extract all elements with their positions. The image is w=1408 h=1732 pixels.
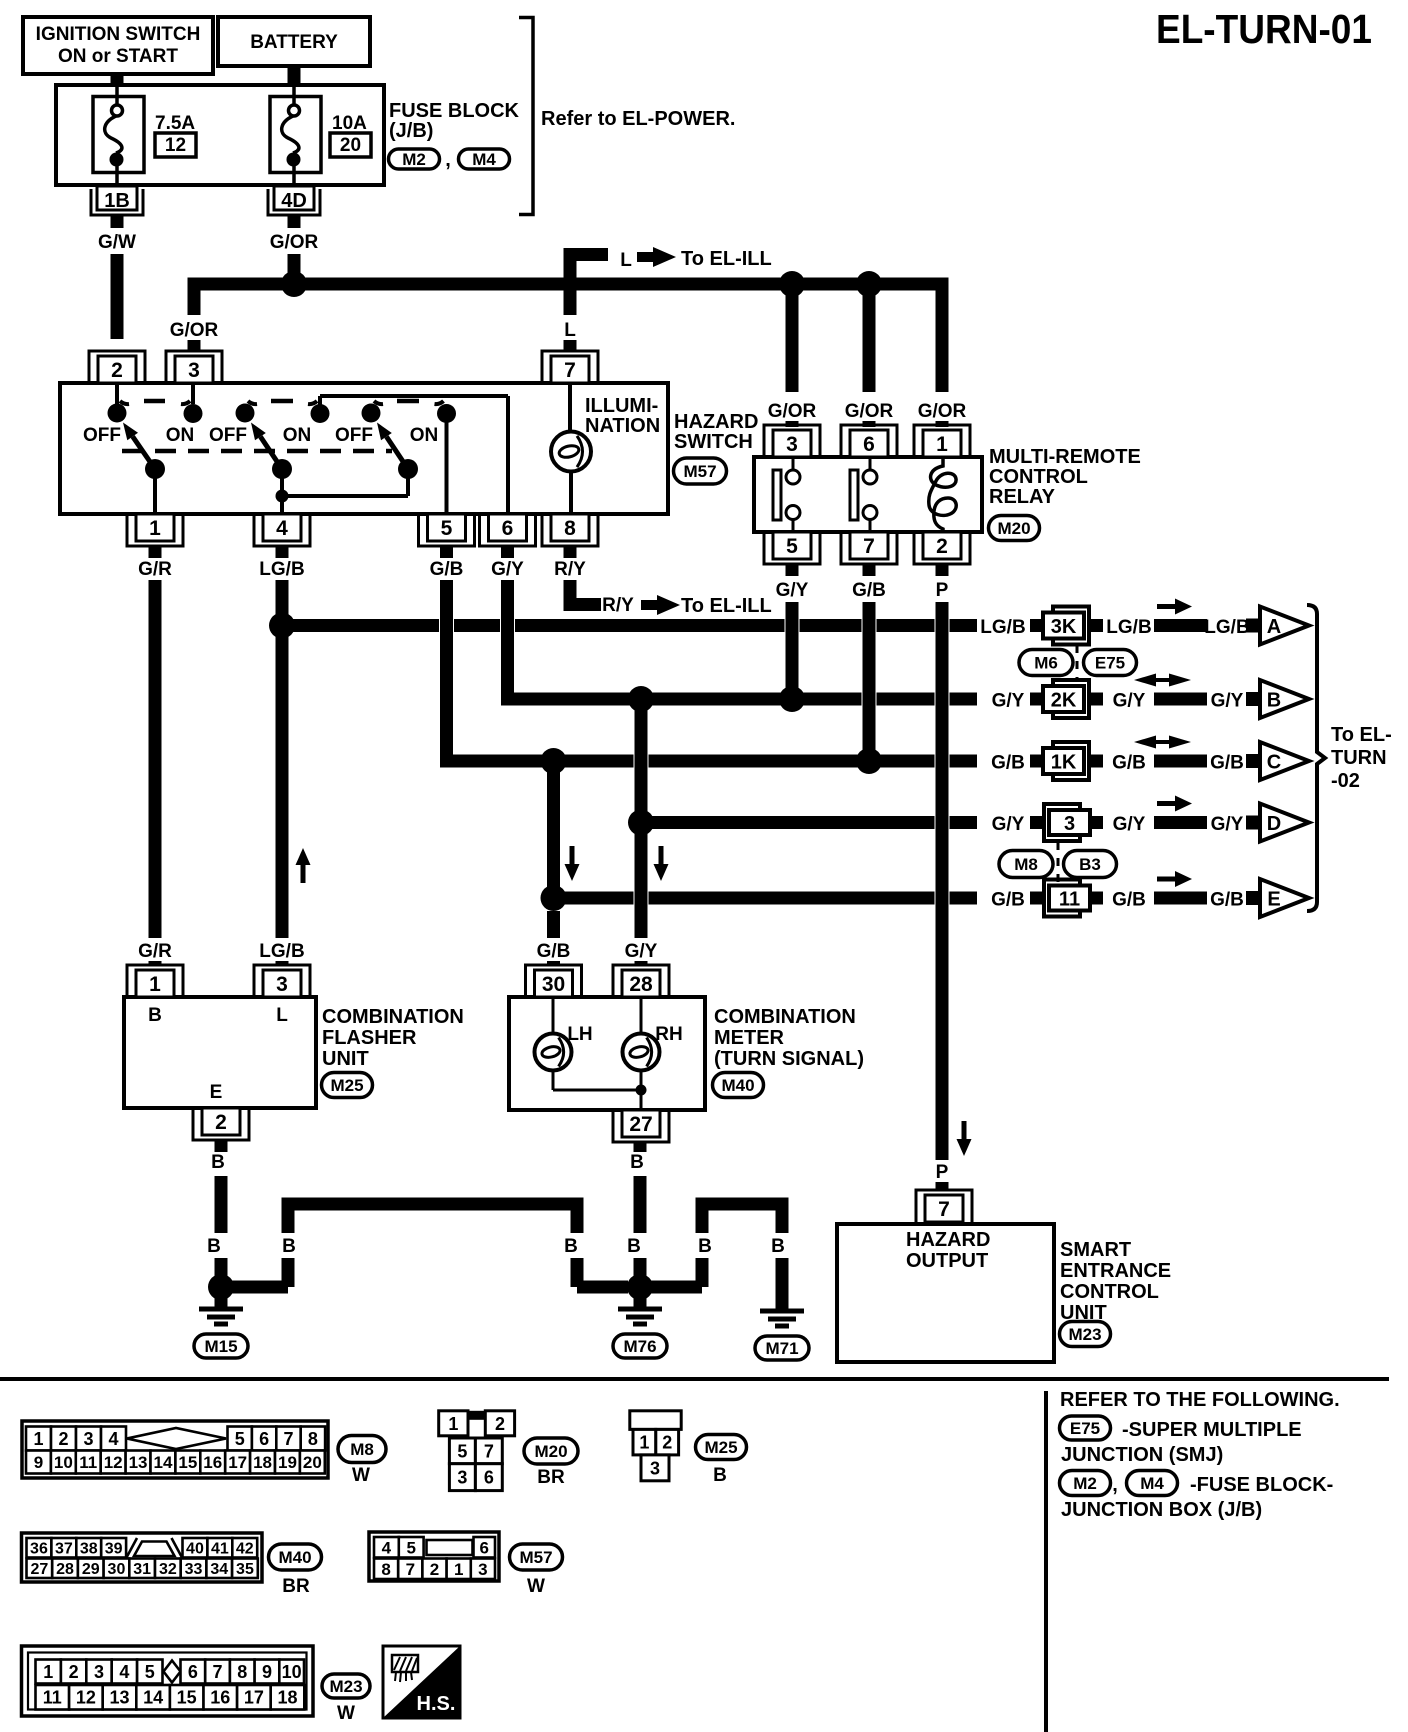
svg-text:1: 1 [43,1662,53,1682]
svg-text:JUNCTION BOX (J/B): JUNCTION BOX (J/B) [1061,1499,1262,1521]
svg-text:UNIT: UNIT [322,1048,369,1070]
svg-text:M4: M4 [472,150,496,169]
svg-text:M23: M23 [329,1677,362,1696]
svg-text:E75: E75 [1070,1419,1100,1438]
svg-text:NATION: NATION [585,415,660,437]
svg-text:30: 30 [542,973,565,996]
svg-text:G/Y: G/Y [1211,691,1244,712]
svg-text:7: 7 [213,1662,223,1682]
svg-text:1: 1 [448,1414,458,1434]
svg-text:LG/B: LG/B [1204,617,1249,638]
svg-text:3: 3 [1064,813,1075,835]
svg-text:2: 2 [662,1433,672,1453]
svg-text:G/B: G/B [1112,890,1146,911]
svg-text:7: 7 [564,359,576,382]
svg-text:18: 18 [277,1688,297,1708]
svg-text:G/R: G/R [138,941,172,962]
svg-text:G/B: G/B [1112,753,1146,774]
svg-text:27: 27 [30,1561,48,1578]
svg-text:G/B: G/B [537,941,571,962]
svg-text:G/OR: G/OR [918,401,967,422]
svg-text:13: 13 [129,1453,148,1472]
svg-text:A: A [1267,616,1281,638]
svg-text:4: 4 [119,1662,129,1682]
svg-text:1: 1 [33,1429,43,1449]
svg-text:15: 15 [178,1453,197,1472]
svg-text:19: 19 [278,1453,297,1472]
svg-text:39: 39 [105,1541,123,1558]
svg-text:To EL-ILL: To EL-ILL [681,595,772,617]
svg-text:14: 14 [153,1453,172,1472]
svg-text:29: 29 [82,1561,100,1578]
svg-text:R/Y: R/Y [554,559,586,580]
svg-text:MULTI-REMOTE: MULTI-REMOTE [989,446,1141,468]
svg-text:5: 5 [786,535,798,558]
svg-text:M76: M76 [623,1337,656,1356]
svg-text:W: W [337,1703,355,1724]
svg-text:34: 34 [210,1561,228,1578]
svg-text:P: P [936,580,949,601]
svg-text:13: 13 [109,1688,129,1708]
svg-text:M4: M4 [1140,1474,1164,1493]
svg-text:35: 35 [236,1561,254,1578]
svg-text:B: B [630,1152,644,1173]
svg-text:16: 16 [210,1688,230,1708]
svg-text:G/B: G/B [1210,753,1244,774]
svg-text:R/Y: R/Y [602,595,634,616]
svg-text:9: 9 [262,1662,272,1682]
svg-text:M20: M20 [997,519,1030,538]
svg-text:OFF: OFF [335,425,373,446]
svg-text:G/OR: G/OR [170,320,219,341]
svg-text:-FUSE BLOCK-: -FUSE BLOCK- [1190,1474,1333,1496]
svg-text:ON: ON [166,425,195,446]
svg-text:37: 37 [55,1541,73,1558]
svg-text:17: 17 [244,1688,264,1708]
svg-text:8: 8 [564,517,576,540]
svg-text:4: 4 [276,517,288,540]
svg-text:G/Y: G/Y [1113,814,1146,835]
svg-text:G/Y: G/Y [625,941,658,962]
svg-text:M57: M57 [519,1548,552,1567]
svg-text:CONTROL: CONTROL [989,466,1088,488]
svg-text:B: B [1267,690,1281,712]
svg-text:LG/B: LG/B [980,617,1025,638]
svg-text:M40: M40 [278,1548,311,1567]
svg-text:ON: ON [283,425,312,446]
svg-text:B: B [627,1236,641,1257]
svg-text:,: , [1112,1474,1118,1496]
svg-text:16: 16 [203,1453,222,1472]
svg-text:10A: 10A [332,113,367,134]
svg-text:LH: LH [567,1024,592,1045]
svg-text:E: E [210,1082,223,1103]
svg-text:2: 2 [69,1662,79,1682]
svg-text:2: 2 [111,359,123,382]
svg-text:2: 2 [936,535,948,558]
svg-text:6: 6 [863,433,875,456]
svg-text:8: 8 [237,1662,247,1682]
svg-text:E: E [1267,889,1280,911]
svg-text:6: 6 [502,517,514,540]
svg-text:C: C [1267,752,1281,774]
svg-text:SMART: SMART [1060,1239,1131,1261]
svg-text:7: 7 [938,1198,950,1221]
svg-text:5: 5 [235,1429,245,1449]
svg-text:RH: RH [655,1024,682,1045]
svg-text:1: 1 [936,433,948,456]
svg-text:12: 12 [76,1688,96,1708]
svg-text:11: 11 [43,1688,62,1708]
svg-text:3: 3 [786,433,798,456]
svg-text:HAZARD: HAZARD [906,1229,990,1251]
svg-text:10: 10 [282,1662,302,1682]
svg-text:OFF: OFF [83,425,121,446]
svg-text:M2: M2 [402,150,426,169]
svg-text:6: 6 [484,1468,494,1488]
svg-text:6: 6 [259,1429,269,1449]
svg-text:M8: M8 [1014,855,1038,874]
svg-text:15: 15 [177,1688,197,1708]
svg-text:M25: M25 [704,1438,737,1457]
svg-text:METER: METER [714,1027,785,1049]
svg-text:COMBINATION: COMBINATION [322,1006,464,1028]
svg-text:3: 3 [83,1429,93,1449]
svg-text:7: 7 [863,535,875,558]
svg-text:G/B: G/B [1210,890,1244,911]
svg-text:G/B: G/B [991,753,1025,774]
svg-text:20: 20 [303,1453,322,1472]
svg-text:3: 3 [457,1468,467,1488]
svg-text:H.S.: H.S. [417,1693,456,1715]
svg-text:3: 3 [188,359,200,382]
svg-text:3: 3 [276,973,288,996]
svg-text:M2: M2 [1073,1474,1097,1493]
svg-text:HAZARD: HAZARD [674,411,758,433]
svg-text:B: B [771,1236,785,1257]
svg-text:ON or START: ON or START [58,46,178,67]
svg-text:(TURN SIGNAL): (TURN SIGNAL) [714,1048,864,1070]
svg-text:36: 36 [30,1541,48,1558]
svg-text:BR: BR [282,1576,310,1597]
svg-text:FLASHER: FLASHER [322,1027,417,1049]
svg-text:ILLUMI-: ILLUMI- [585,395,658,417]
svg-text:7: 7 [484,1441,494,1461]
svg-text:M25: M25 [330,1076,363,1095]
svg-text:G/R: G/R [138,559,172,580]
svg-text:Refer to EL-POWER.: Refer to EL-POWER. [541,108,735,130]
svg-text:BATTERY: BATTERY [250,32,338,53]
svg-text:G/Y: G/Y [992,814,1025,835]
svg-text:LG/B: LG/B [259,559,304,580]
svg-text:OUTPUT: OUTPUT [906,1250,988,1272]
svg-text:M6: M6 [1034,654,1058,673]
svg-text:EL-TURN-01: EL-TURN-01 [1156,6,1372,52]
svg-text:30: 30 [108,1561,126,1578]
svg-text:M23: M23 [1068,1325,1101,1344]
svg-text:3: 3 [650,1458,660,1478]
svg-text:1: 1 [454,1560,463,1579]
svg-text:1K: 1K [1051,752,1077,774]
svg-text:G/B: G/B [991,890,1025,911]
svg-text:7: 7 [283,1429,293,1449]
svg-text:L: L [564,320,576,341]
svg-text:OFF: OFF [209,425,247,446]
svg-text:M15: M15 [204,1337,237,1356]
svg-text:38: 38 [80,1541,98,1558]
svg-text:5: 5 [145,1662,155,1682]
svg-text:B: B [713,1465,727,1486]
svg-text:14: 14 [143,1688,163,1708]
svg-text:G/Y: G/Y [491,559,524,580]
svg-text:12: 12 [165,135,186,156]
svg-text:SWITCH: SWITCH [674,431,753,453]
svg-text:6: 6 [480,1538,489,1557]
svg-text:RELAY: RELAY [989,486,1056,508]
svg-text:6: 6 [188,1662,198,1682]
svg-text:7.5A: 7.5A [155,113,195,134]
svg-text:40: 40 [186,1541,204,1558]
svg-text:5: 5 [406,1538,415,1557]
svg-text:B: B [282,1236,296,1257]
svg-text:B: B [148,1005,162,1026]
svg-text:G/Y: G/Y [992,691,1025,712]
svg-text:32: 32 [159,1561,177,1578]
svg-text:27: 27 [629,1113,652,1136]
svg-text:BR: BR [537,1467,565,1488]
svg-text:IGNITION SWITCH: IGNITION SWITCH [36,24,201,45]
svg-text:B: B [564,1236,578,1257]
svg-text:B3: B3 [1079,855,1101,874]
svg-text:M8: M8 [350,1440,374,1459]
svg-text:4D: 4D [281,190,307,212]
svg-text:18: 18 [253,1453,272,1472]
svg-text:G/Y: G/Y [1113,691,1146,712]
svg-text:12: 12 [104,1453,123,1472]
svg-text:11: 11 [79,1453,97,1472]
svg-text:3: 3 [94,1662,104,1682]
svg-text:-SUPER MULTIPLE: -SUPER MULTIPLE [1122,1419,1302,1441]
svg-text:3K: 3K [1051,616,1077,638]
svg-text:10: 10 [54,1453,73,1472]
svg-text:2: 2 [495,1414,505,1434]
svg-text:L: L [620,250,632,271]
svg-text:7: 7 [406,1560,415,1579]
svg-text:28: 28 [56,1561,74,1578]
svg-text:G/OR: G/OR [768,401,817,422]
svg-text:(J/B): (J/B) [389,120,433,142]
svg-text:M57: M57 [683,462,716,481]
svg-text:B: B [211,1152,225,1173]
svg-text:G/Y: G/Y [1211,814,1244,835]
svg-text:2: 2 [430,1560,439,1579]
svg-text:4: 4 [382,1538,392,1557]
svg-text:ON: ON [410,425,439,446]
svg-text:31: 31 [133,1561,151,1578]
svg-text:,: , [445,149,451,171]
svg-text:W: W [527,1576,545,1597]
svg-text:LG/B: LG/B [259,941,304,962]
svg-text:2: 2 [58,1429,68,1449]
svg-text:ENTRANCE: ENTRANCE [1060,1260,1171,1282]
svg-text:L: L [276,1005,288,1026]
svg-text:JUNCTION (SMJ): JUNCTION (SMJ) [1061,1444,1223,1466]
svg-text:8: 8 [308,1429,318,1449]
svg-text:3: 3 [478,1560,487,1579]
svg-text:E75: E75 [1095,654,1125,673]
svg-text:11: 11 [1059,889,1080,911]
svg-text:CONTROL: CONTROL [1060,1281,1159,1303]
svg-text:M40: M40 [721,1076,754,1095]
svg-text:P: P [936,1162,949,1183]
svg-text:42: 42 [236,1541,254,1558]
svg-text:To EL-: To EL- [1331,724,1392,746]
svg-text:17: 17 [228,1453,247,1472]
svg-text:41: 41 [211,1541,229,1558]
svg-text:G/B: G/B [430,559,464,580]
svg-text:B: B [207,1236,221,1257]
svg-text:LG/B: LG/B [1106,617,1151,638]
svg-text:To EL-ILL: To EL-ILL [681,248,772,270]
svg-text:G/W: G/W [98,232,136,253]
svg-text:-02: -02 [1331,770,1360,792]
svg-text:8: 8 [381,1560,390,1579]
svg-text:D: D [1267,813,1281,835]
svg-text:G/OR: G/OR [270,232,319,253]
svg-text:B: B [698,1236,712,1257]
svg-text:33: 33 [185,1561,203,1578]
svg-text:1: 1 [149,973,161,996]
svg-text:1: 1 [149,517,161,540]
svg-text:M20: M20 [534,1442,567,1461]
svg-text:20: 20 [340,135,361,156]
svg-text:TURN: TURN [1331,747,1387,769]
svg-text:1: 1 [639,1433,649,1453]
svg-text:G/OR: G/OR [845,401,894,422]
svg-text:FUSE BLOCK: FUSE BLOCK [389,100,520,122]
svg-text:G/B: G/B [852,580,886,601]
svg-text:M71: M71 [765,1339,798,1358]
svg-text:2: 2 [215,1111,227,1134]
svg-text:W: W [352,1465,370,1486]
svg-text:2K: 2K [1051,690,1077,712]
svg-text:9: 9 [34,1453,43,1472]
svg-text:COMBINATION: COMBINATION [714,1006,856,1028]
svg-text:28: 28 [629,973,653,996]
svg-text:4: 4 [108,1429,118,1449]
svg-text:5: 5 [441,517,453,540]
svg-text:REFER TO THE FOLLOWING.: REFER TO THE FOLLOWING. [1060,1389,1340,1411]
svg-text:5: 5 [457,1441,467,1461]
svg-text:1B: 1B [104,190,130,212]
svg-text:G/Y: G/Y [776,580,809,601]
